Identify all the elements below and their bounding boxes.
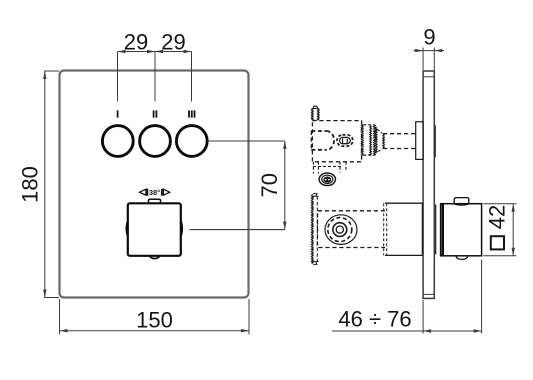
dim text square 42 (rotated) bbox=[485, 205, 510, 250]
top-left screw stub bbox=[312, 106, 319, 120]
button I circle bbox=[102, 126, 133, 157]
svg-text:70: 70 bbox=[257, 173, 282, 197]
thermostat body (dashed) bbox=[318, 211, 386, 248]
dim 150 extension lines bbox=[60, 299, 250, 335]
dim text 9 bbox=[423, 25, 435, 50]
dim 180 line with arrows bbox=[43, 71, 46, 298]
knob bottom notch arc bbox=[150, 257, 160, 259]
svg-text:38°: 38° bbox=[149, 188, 160, 197]
knob bottom bump bbox=[456, 256, 468, 260]
button face line bbox=[434, 125, 436, 157]
label III bbox=[188, 109, 197, 120]
cartridge circles bbox=[328, 218, 352, 242]
outlet flange oval bbox=[319, 173, 335, 186]
dim text 150 bbox=[136, 308, 173, 333]
svg-text:150: 150 bbox=[136, 308, 173, 333]
svg-text:29: 29 bbox=[161, 30, 185, 55]
dim 42 line with arrows bbox=[512, 204, 515, 256]
dim 29-29 line with arrows bbox=[118, 50, 192, 53]
cartridge dome ellipse bbox=[325, 215, 357, 245]
cone adapter (serrated) bbox=[374, 127, 384, 153]
label II bbox=[152, 109, 158, 120]
side plate bar 9mm bbox=[423, 71, 434, 298]
label I bbox=[116, 109, 119, 120]
dim 150 line with arrows bbox=[60, 329, 250, 332]
button II circle bbox=[140, 126, 171, 157]
dim 46-76 extension lines bbox=[423, 260, 482, 334]
38 degree marker bbox=[140, 188, 170, 197]
solid housing box bbox=[384, 203, 423, 255]
stem (dashed) bbox=[383, 134, 415, 149]
dim text 46-76 bbox=[338, 307, 411, 332]
knob side view bbox=[441, 204, 482, 256]
svg-text:46 ÷ 76: 46 ÷ 76 bbox=[338, 307, 411, 332]
svg-text:180: 180 bbox=[18, 166, 43, 203]
knob square front view bbox=[128, 203, 181, 256]
dim 9 line with outside arrows bbox=[414, 49, 445, 52]
dim text 70 (rotated) bbox=[257, 173, 282, 197]
dim 9 extension lines bbox=[423, 48, 434, 71]
dim 180 extension lines bbox=[44, 71, 59, 298]
dim 42 extension lines bbox=[483, 204, 516, 256]
knob rear collar line bbox=[435, 205, 437, 255]
svg-text:9: 9 bbox=[423, 25, 435, 50]
dim 29-29 extension lines bbox=[118, 52, 192, 102]
knob top tab bbox=[149, 199, 161, 203]
svg-text:29: 29 bbox=[124, 30, 148, 55]
knob top bump bbox=[453, 198, 470, 206]
knob left grip arc bbox=[126, 222, 129, 235]
button III circle bbox=[176, 126, 207, 157]
dim text 29 left bbox=[124, 30, 148, 55]
knob right grip arc bbox=[180, 222, 183, 235]
thermostat flange serrated edge bbox=[311, 194, 318, 265]
front plate 150x180 bbox=[60, 71, 249, 298]
svg-text:42: 42 bbox=[485, 205, 510, 229]
inlet cylinder (dashed) bbox=[311, 131, 334, 150]
dim text 180 (rotated) bbox=[18, 166, 43, 203]
threaded collar (serrated) bbox=[361, 125, 375, 156]
dim 70 line with arrows bbox=[283, 141, 286, 230]
center oval port bbox=[337, 135, 353, 146]
dim 70 leader from knob bbox=[190, 229, 285, 231]
button back plate (solid) bbox=[416, 122, 423, 160]
svg-text:II: II bbox=[152, 109, 158, 120]
dim 46-76 line with arrows bbox=[332, 329, 482, 332]
valve body (dashed) bbox=[312, 121, 361, 162]
svg-text:III: III bbox=[188, 109, 197, 120]
svg-text:I: I bbox=[116, 109, 119, 120]
dim 70 leader from button III bbox=[208, 140, 285, 142]
outlet bracket (dashed) bbox=[313, 162, 346, 174]
dim text 29 right bbox=[161, 30, 185, 55]
